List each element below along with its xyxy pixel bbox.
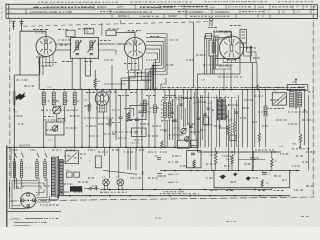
wire C36 top <box>295 80 297 85</box>
extra center verticals <box>166 120 168 147</box>
center short links <box>165 95 175 97</box>
wire diode row <box>84 188 99 190</box>
wire T1 lead b <box>79 58 81 89</box>
resistor box pair lower <box>132 128 147 137</box>
center label specks row <box>162 97 165 99</box>
wire col 179 <box>178 95 180 140</box>
bus junction dots <box>43 89 45 91</box>
trimmer CT4 <box>185 137 190 142</box>
labels right mid <box>268 108 269 110</box>
C36 inner marks <box>290 87 295 89</box>
wire col 183 trimmer <box>183 90 185 128</box>
wire drops to lamps <box>104 147 106 156</box>
T1 internal cap 2 <box>90 52 94 54</box>
nested wire hook 5 <box>146 49 159 90</box>
wire bus link <box>198 73 241 75</box>
wire 257 drop <box>256 63 258 90</box>
wire plate bus <box>223 62 258 64</box>
output transformer T3 primary <box>289 92 291 108</box>
wire V1 to T1 b <box>56 49 71 51</box>
wire v1 left pin drop <box>39 57 41 76</box>
wire det top h <box>205 35 220 37</box>
wire det h2 <box>218 38 227 40</box>
wire choke top <box>219 90 221 99</box>
title block rule 2 <box>6 8 318 10</box>
T1 secondary coil <box>89 41 91 51</box>
tone box cap <box>191 152 195 154</box>
wire bus drop 240 <box>239 43 241 59</box>
wire L2 to trimmer <box>53 106 55 108</box>
tube V4 output <box>220 36 244 60</box>
center small caps extra <box>171 111 174 113</box>
wire cluster drop b <box>211 56 213 74</box>
wire col 137 cap C15 <box>136 90 138 119</box>
wire cluster drop 251 <box>251 47 253 56</box>
nested monitor wiring 8 <box>36 189 44 192</box>
top margin ruler marks <box>38 1 40 3</box>
power transformer T4 secondary <box>58 160 60 196</box>
coil bank labels <box>41 109 44 111</box>
nested wire hook 4 <box>146 45 161 89</box>
tube pin labels <box>38 62 40 64</box>
wire mid column <box>192 22 194 87</box>
nested monitor wiring 11 <box>36 178 39 195</box>
field coil box <box>272 93 286 105</box>
tube V2 <box>125 38 146 59</box>
padder trimmer <box>52 126 58 132</box>
monitor coil 4 <box>43 162 45 178</box>
rect cap block C30 <box>240 30 247 43</box>
wire V3 pin h <box>98 111 106 113</box>
wire T1 link <box>85 75 90 77</box>
T1 internal cap 1 <box>76 52 80 54</box>
nested monitor wiring 13 <box>10 147 12 178</box>
resistor R22 voice <box>299 134 302 142</box>
wire V1 pin link down <box>42 66 44 75</box>
nested wire hook 1 <box>146 34 167 90</box>
resistor R21 <box>231 155 234 164</box>
labels right bottom <box>292 148 294 150</box>
coil L3 <box>62 92 64 106</box>
small box det a <box>206 34 212 39</box>
wire 272 stub <box>271 188 273 190</box>
IF transformer T2 coils <box>163 102 165 118</box>
wire T1 lead a <box>71 58 73 89</box>
wire L1 down <box>43 106 45 148</box>
wire top bus y89.6 <box>40 89 305 91</box>
cap C48 b <box>74 172 80 177</box>
staircase wire 2 <box>129 77 152 90</box>
wire bus drop 240b <box>239 59 241 75</box>
tone box <box>187 151 202 168</box>
bus extension y152 <box>198 151 282 153</box>
padder box <box>46 122 64 135</box>
resistor R20 <box>215 147 217 152</box>
nested monitor wiring 3 <box>12 178 37 206</box>
small marks <box>157 173 162 175</box>
wire T1 to V2 b <box>99 49 117 51</box>
resistor R15 <box>233 108 235 121</box>
tube V3 <box>95 92 109 106</box>
coil L6 col155 <box>154 90 156 105</box>
wire L4 down <box>74 106 76 148</box>
box lower innards <box>134 131 138 133</box>
wire col 247 <box>246 90 248 148</box>
trimmer box above T1 <box>66 30 75 37</box>
coil L1 <box>41 92 43 106</box>
coil L5 <box>142 100 144 113</box>
wire det col 256 <box>255 52 257 63</box>
wire V1 pins bus <box>41 65 52 67</box>
coil L4 <box>72 92 74 106</box>
resistor R4 <box>94 78 97 87</box>
title block left inner edge <box>8 4 10 18</box>
wire V2 pin links <box>128 70 130 90</box>
IF transformer T1 box <box>71 38 99 59</box>
box cap C50 <box>262 171 267 173</box>
coil L2 <box>51 92 53 106</box>
labels mid left <box>84 117 86 119</box>
title block right edge <box>317 5 319 19</box>
wire antenna column <box>19 31 21 75</box>
output transformer T3 secondary <box>297 93 299 107</box>
small cap c mid2 <box>189 125 193 127</box>
cap C48 a <box>67 172 73 177</box>
bus extension step <box>197 147 199 152</box>
diagonal dial wire <box>103 170 137 174</box>
bus wire y195 <box>57 195 290 197</box>
wire col 110 with resistor R7 <box>109 90 111 118</box>
title block rule 3 <box>6 13 318 15</box>
staircase wire 1 <box>122 80 151 89</box>
wire R4 top <box>94 70 96 78</box>
labels top row tubes <box>58 39 59 41</box>
small cap c mid3 <box>203 113 207 115</box>
tube V1 <box>36 37 56 57</box>
labels bottom center <box>163 191 164 193</box>
title block left edge <box>5 3 7 18</box>
wire V1 to T1 a <box>56 43 71 45</box>
T1 tuning arrow 1 <box>74 41 82 53</box>
resistor left of box <box>127 112 130 121</box>
IF can small <box>209 40 218 56</box>
wire col 254 <box>254 90 256 148</box>
wire choke bottom <box>219 120 221 147</box>
wire plug to bus <box>36 196 57 198</box>
nested monitor wiring 7 <box>38 194 58 200</box>
margin speck b <box>301 216 304 218</box>
wire V1 grid top <box>45 31 47 36</box>
annotation blob 1 <box>220 175 226 180</box>
wire col 242 <box>242 90 244 148</box>
ground input symbol <box>21 20 23 32</box>
wire v4 right drop <box>250 45 252 63</box>
rectifier diodes <box>88 187 91 191</box>
wire det column long <box>251 63 253 171</box>
hand-drawn arrow blob <box>16 93 26 101</box>
coil bank labels 2 <box>44 119 46 121</box>
wire bottom link row <box>16 74 39 76</box>
antenna coil hatch <box>13 91 16 93</box>
center small rect2 <box>230 135 236 141</box>
monitor panel left edge <box>6 146 8 228</box>
IF can coil <box>211 42 213 54</box>
wire T2 top <box>164 90 166 102</box>
right border dash-dot line <box>312 6 314 11</box>
wire col 238 <box>238 95 240 171</box>
det drops to bus <box>223 69 225 90</box>
monitor coil 2 <box>19 162 21 178</box>
pilot lamp L-6 <box>103 179 110 186</box>
wire V2 top drop <box>115 33 117 36</box>
shield dashed line across top <box>24 25 29 27</box>
legend text line 3 <box>14 224 30 226</box>
capacitor box C28 <box>214 32 231 38</box>
antenna symbol <box>13 21 15 30</box>
wire L5 stub <box>144 90 146 100</box>
nested monitor wiring 2 <box>22 178 42 189</box>
wire col 175 <box>174 90 176 148</box>
wire T4 secondary taps <box>60 161 65 163</box>
nested monitor wiring 6 <box>37 196 50 202</box>
wire V2 pins bus <box>130 69 141 71</box>
wire shield drop to T1 <box>101 23 103 36</box>
wire col 191 <box>190 90 192 148</box>
wire col 259 resistor R17 <box>258 90 260 133</box>
T1 tuning arrow 2 <box>88 41 96 53</box>
choke coil dense <box>216 99 218 120</box>
wire padder down <box>54 135 56 147</box>
wire avc bus <box>214 58 240 60</box>
small box top center <box>106 30 116 35</box>
wire V2 link h <box>121 77 135 79</box>
monitor switch dots <box>14 159 16 161</box>
junction marks mid <box>142 171 144 173</box>
labels monitor bottom <box>40 204 42 206</box>
bus extension dots <box>216 151 218 153</box>
nested monitor wiring 14 <box>12 206 25 209</box>
wire antenna hlink <box>14 74 16 76</box>
T4 core <box>56 156 58 198</box>
y170 dots <box>164 170 166 172</box>
y195 dots <box>69 195 71 197</box>
bottom-right box <box>214 171 290 188</box>
wire left of boxes <box>161 140 163 148</box>
T2 dashed shield <box>161 100 163 102</box>
label B box <box>84 28 93 34</box>
wire grid column V1 <box>38 58 40 90</box>
title block row3 separators <box>111 14 113 18</box>
wire col 120 cap C14 <box>120 95 122 117</box>
labels under lamps <box>100 191 103 193</box>
annotation blob 3 <box>233 173 237 177</box>
wire col 82 <box>81 90 83 148</box>
wire cluster h47 <box>240 46 252 48</box>
labels plug <box>16 186 19 188</box>
T1 primary coil <box>75 41 77 51</box>
small cap c mid1 <box>173 119 177 121</box>
nested monitor wiring 9 <box>17 178 22 189</box>
wire det right h <box>244 55 253 57</box>
wire T1 lead d <box>89 58 91 76</box>
junction spk <box>304 109 306 111</box>
wire V2 top link <box>116 32 135 34</box>
wire mid column2 <box>197 74 199 147</box>
resistor box pair upper <box>130 106 146 120</box>
wire T1 to V2 a <box>99 43 125 45</box>
chassis bus wire y147 <box>8 146 198 148</box>
wire col 196 <box>195 90 197 140</box>
wire cluster drop a <box>209 56 211 74</box>
det vertical bundle <box>212 38 214 69</box>
wire mid links <box>111 65 113 90</box>
wire cap feed <box>261 171 263 173</box>
margin speck c <box>155 217 157 219</box>
staircase wire 3 <box>137 73 154 90</box>
annotation blob 2 <box>246 177 251 181</box>
center junction dots <box>174 95 176 97</box>
title block row1 extra text <box>33 6 35 8</box>
label C28 <box>213 30 215 32</box>
cap C38 <box>157 157 161 159</box>
monitor coil 1 <box>12 162 14 178</box>
nested monitor wiring 12 <box>36 178 47 198</box>
wire col 97 <box>96 90 98 148</box>
trimmer CT3 <box>181 128 186 133</box>
title block bottom rule <box>6 17 318 19</box>
wire antenna lead long <box>13 75 15 190</box>
wire trimmer down <box>56 115 58 122</box>
wire V2 link h2 <box>142 79 153 81</box>
box resistor R23 <box>261 179 263 186</box>
wire T1 lead c <box>84 58 86 76</box>
nested monitor wiring 1 <box>15 178 45 186</box>
plug connector <box>21 193 36 208</box>
wire T3 top feed <box>290 90 292 92</box>
nested monitor wiring 4 <box>45 178 47 181</box>
tone box resistor <box>193 160 195 168</box>
bus wire y170 <box>160 170 300 172</box>
resistor small R18 <box>161 141 163 149</box>
title block row1 separators <box>93 5 95 10</box>
wire mid link h3 <box>104 83 126 85</box>
cap block C30 bars <box>242 31 246 33</box>
margin speck a <box>226 221 229 223</box>
resistor R19 <box>271 152 273 158</box>
wire V3 top <box>101 90 103 92</box>
det step outline <box>212 68 231 70</box>
wire T2 bottoms <box>164 118 166 147</box>
top cap jack <box>209 18 212 21</box>
wire V2 grid top <box>134 33 136 38</box>
box pair top a <box>177 140 189 148</box>
nested wire hook 3 <box>146 41 163 89</box>
trimmer CT1 <box>53 106 61 114</box>
monitor panel bottom edge <box>7 211 61 213</box>
title block top rule <box>6 3 318 5</box>
resistor R14 <box>228 110 230 124</box>
title block row2 separators <box>25 9 27 14</box>
y189 dots <box>104 189 106 191</box>
wire shield tick <box>120 20 122 23</box>
bus wire y189 <box>100 189 272 191</box>
labels near detector <box>203 64 205 66</box>
coil L10 <box>265 90 267 106</box>
wire col 149 <box>148 95 150 147</box>
wire col 205 <box>204 90 206 148</box>
wire marks 258 <box>257 84 259 91</box>
nested wire hook 2 <box>146 37 165 89</box>
staircase wire 6 <box>161 78 166 90</box>
staircase wire 4 <box>145 69 157 90</box>
wire col 126 <box>125 90 127 148</box>
pilot lamp L-7 <box>117 179 124 186</box>
wire right bus <box>307 95 309 171</box>
wire cluster drop c <box>213 59 215 75</box>
bottom border dash-dot line <box>10 200 17 202</box>
wire sub link y159 <box>238 159 265 161</box>
wire col 116 <box>115 90 117 140</box>
staircase wire 5 <box>153 65 159 89</box>
nested monitor wiring 10 <box>22 178 24 191</box>
wire col 200 <box>200 95 202 147</box>
wire L3 down <box>64 106 66 123</box>
wire col 187 <box>187 90 189 125</box>
electrolytic cap block <box>70 186 82 191</box>
extra labels batch <box>33 29 36 31</box>
cap hanger C40 <box>253 152 255 158</box>
box pair top b <box>190 140 197 145</box>
wire col 142 <box>141 90 143 148</box>
wire det verticals <box>204 36 206 74</box>
T3 core lines <box>294 90 296 109</box>
wire det right bundle <box>243 43 245 56</box>
wire V1 top to left <box>20 30 46 32</box>
switch box S <box>65 151 78 164</box>
nested monitor wiring 5 <box>9 183 28 209</box>
box upper innards <box>133 109 135 117</box>
legend text line 2 <box>14 221 34 223</box>
left border dash-dot line <box>9 19 11 24</box>
wire T3 sec down <box>299 107 301 135</box>
hook junction dots <box>146 89 148 91</box>
capacitor C36 flat box <box>287 85 308 91</box>
bus dots <box>43 147 45 149</box>
power transformer T4 primary <box>50 157 52 197</box>
nested wire hook 6 <box>146 53 158 90</box>
component small box left <box>95 156 101 168</box>
center small rect <box>203 117 208 125</box>
wire spk column <box>304 90 306 145</box>
wire col 89 with resistor R6 <box>88 90 90 103</box>
monitor coil 3 <box>35 162 37 178</box>
wire V3 pin down <box>103 112 105 147</box>
wire v4 top cap <box>231 32 233 37</box>
